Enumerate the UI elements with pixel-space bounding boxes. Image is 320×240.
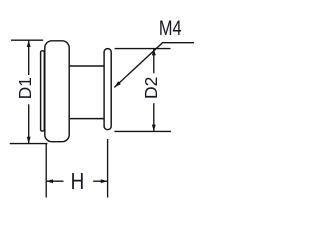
svg-text:D2: D2: [141, 77, 161, 99]
svg-text:M4: M4: [159, 16, 182, 39]
svg-text:D1: D1: [15, 77, 35, 99]
svg-text:H: H: [71, 170, 85, 195]
